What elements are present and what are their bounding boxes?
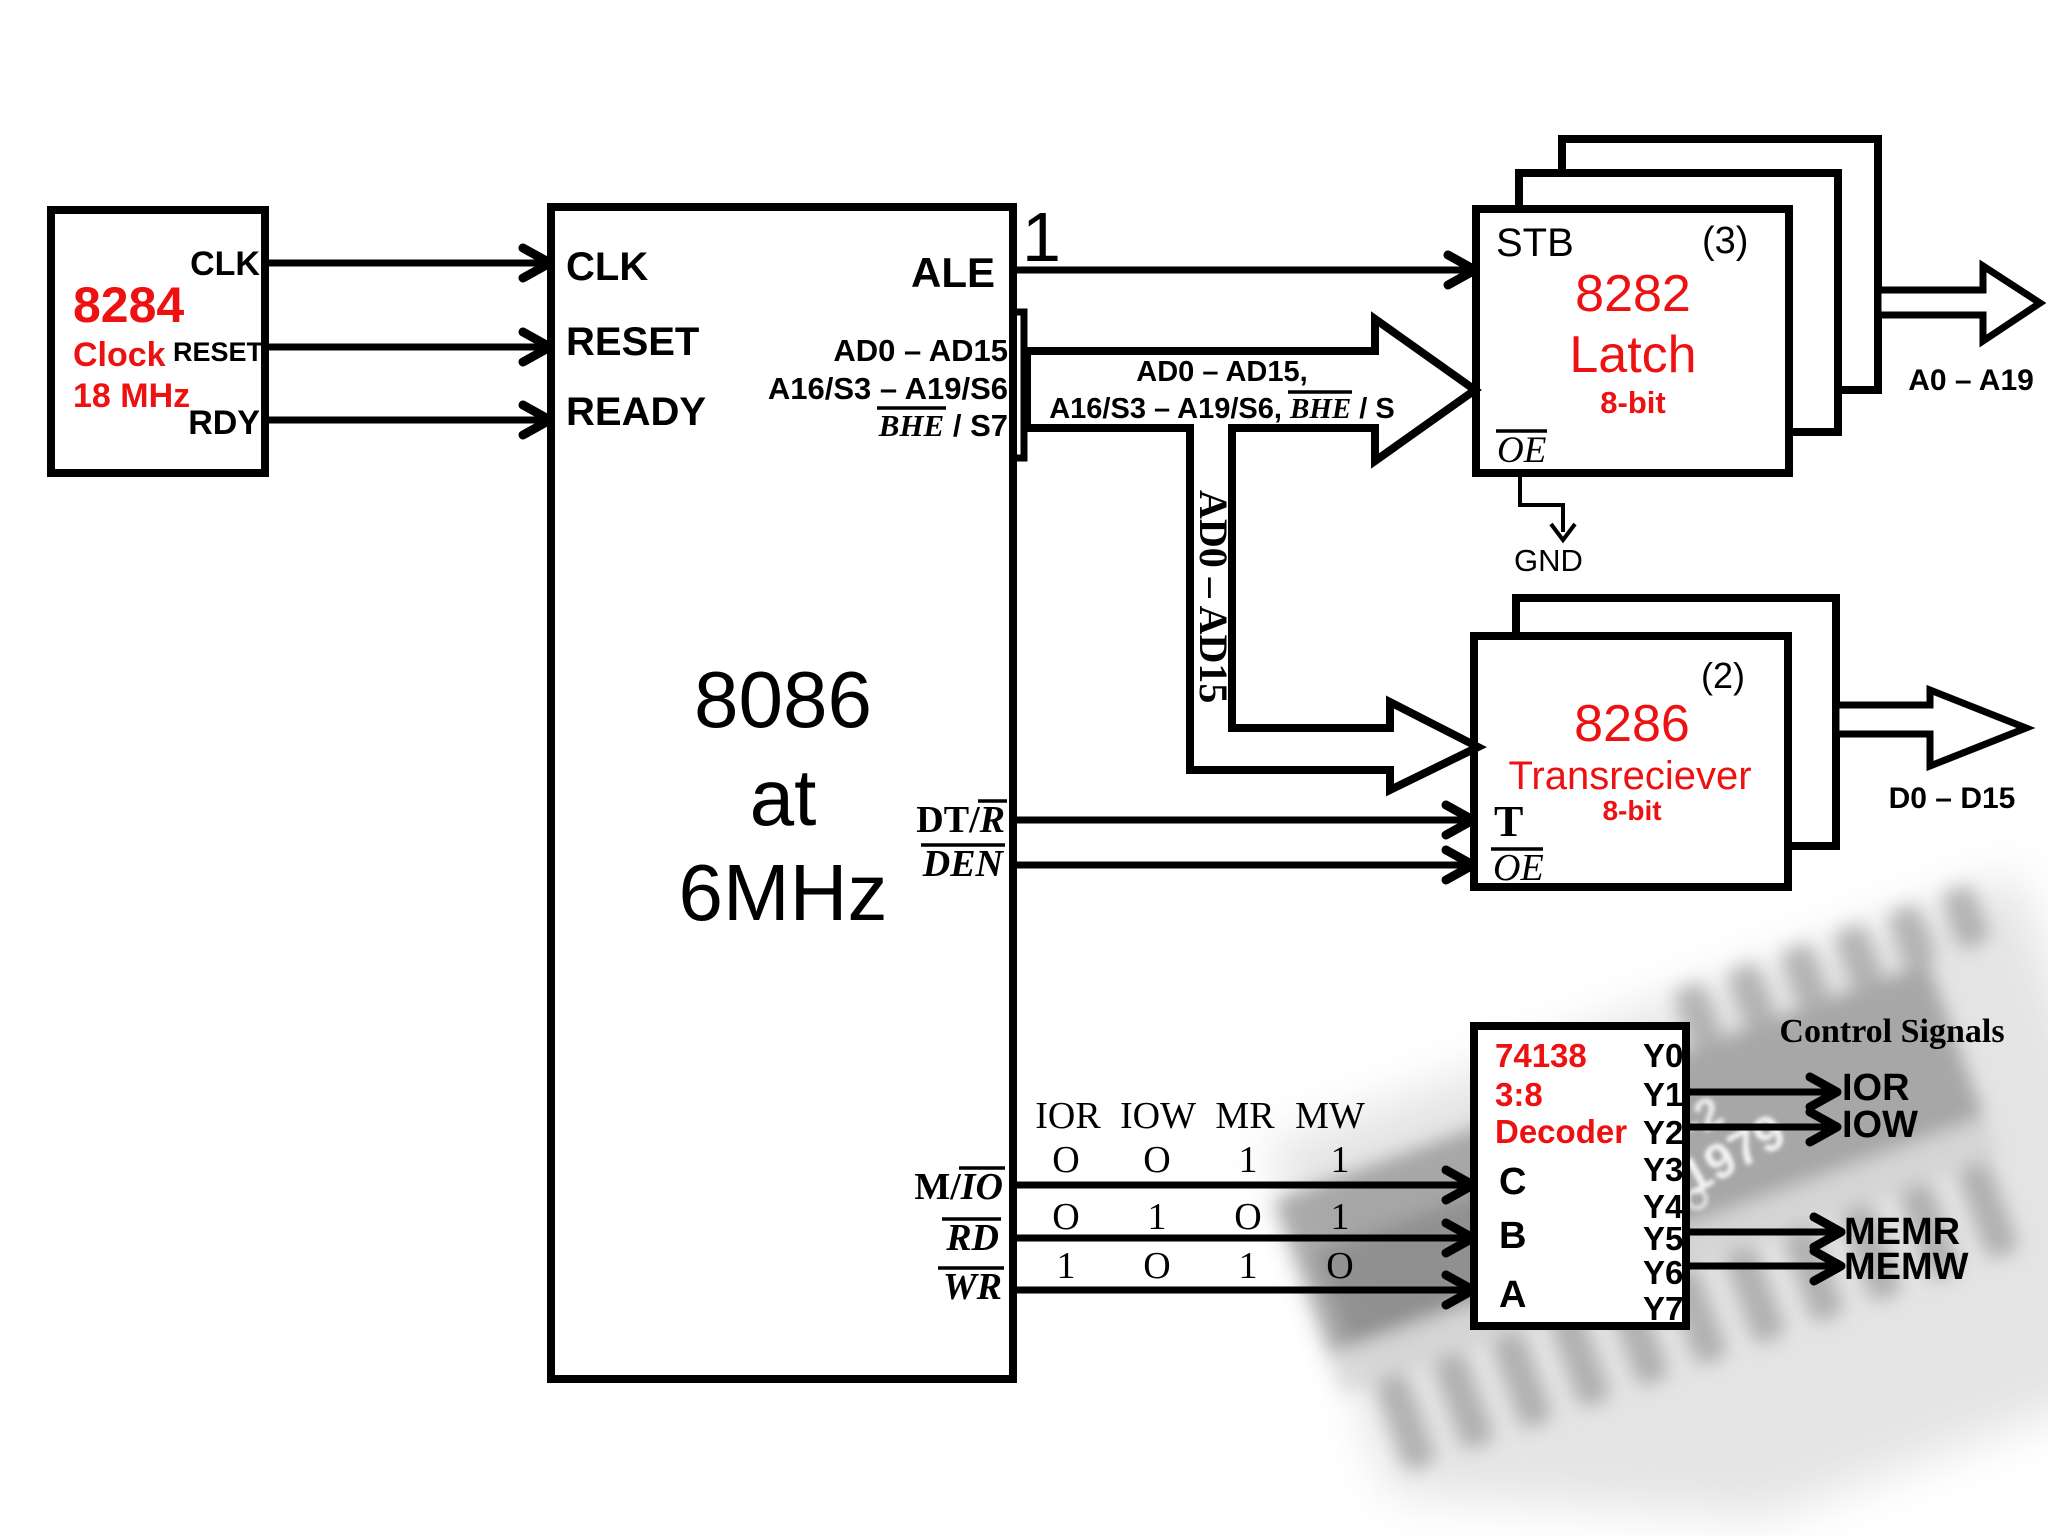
svg-text:1: 1 (1239, 1245, 1258, 1287)
svg-text:Y6: Y6 (1643, 1254, 1683, 1291)
svg-text:M/IO: M/IO (914, 1166, 1003, 1208)
svg-text:8284: 8284 (73, 277, 184, 333)
svg-text:O: O (1143, 1245, 1170, 1287)
svg-text:8286: 8286 (1574, 695, 1690, 753)
svg-text:MR: MR (1215, 1095, 1275, 1137)
svg-text:OE: OE (1497, 430, 1546, 471)
svg-text:(2): (2) (1701, 655, 1745, 696)
svg-text:CLK: CLK (190, 245, 260, 283)
svg-text:A0 – A19: A0 – A19 (1908, 364, 2034, 397)
svg-text:MEMW: MEMW (1844, 1246, 1969, 1288)
svg-text:ALE: ALE (911, 249, 995, 296)
svg-text:IOR: IOR (1842, 1067, 1910, 1109)
svg-text:BHE / S7: BHE / S7 (878, 408, 1008, 443)
svg-text:Y7: Y7 (1643, 1290, 1683, 1327)
svg-text:8-bit: 8-bit (1602, 795, 1661, 826)
svg-text:D0 – D15: D0 – D15 (1889, 782, 2016, 815)
svg-text:O: O (1052, 1196, 1079, 1238)
svg-text:Y1: Y1 (1643, 1076, 1683, 1113)
svg-text:RESET: RESET (566, 320, 699, 364)
svg-text:Y5: Y5 (1643, 1220, 1683, 1257)
svg-text:8086: 8086 (694, 655, 872, 744)
svg-text:Latch: Latch (1569, 326, 1696, 384)
svg-text:74138: 74138 (1495, 1037, 1587, 1074)
svg-text:(3): (3) (1702, 220, 1748, 262)
svg-text:1: 1 (1331, 1139, 1350, 1181)
svg-text:18 MHz: 18 MHz (73, 377, 190, 415)
svg-text:READY: READY (566, 390, 706, 434)
svg-text:AD0 – AD15: AD0 – AD15 (1191, 490, 1236, 703)
svg-text:6MHz: 6MHz (679, 848, 888, 937)
svg-text:8282: 8282 (1575, 265, 1691, 323)
svg-text:OE: OE (1493, 847, 1544, 889)
svg-text:CLK: CLK (566, 245, 648, 289)
svg-text:O: O (1234, 1196, 1261, 1238)
svg-text:RD: RD (945, 1217, 999, 1259)
svg-text:RDY: RDY (188, 404, 260, 442)
svg-text:1: 1 (1239, 1139, 1258, 1181)
svg-text:IOW: IOW (1120, 1095, 1196, 1137)
svg-text:3:8: 3:8 (1495, 1076, 1543, 1113)
svg-text:Decoder: Decoder (1495, 1113, 1627, 1150)
svg-text:A: A (1499, 1274, 1526, 1316)
svg-text:O: O (1326, 1245, 1353, 1287)
svg-text:1: 1 (1022, 198, 1061, 276)
svg-text:at: at (750, 753, 817, 842)
svg-text:STB: STB (1496, 221, 1574, 265)
svg-text:T: T (1494, 797, 1523, 846)
svg-text:1: 1 (1148, 1196, 1167, 1238)
svg-text:O: O (1143, 1139, 1170, 1181)
svg-text:MW: MW (1295, 1095, 1365, 1137)
svg-text:8-bit: 8-bit (1600, 385, 1665, 420)
svg-text:C: C (1499, 1161, 1526, 1203)
svg-text:B: B (1499, 1215, 1526, 1257)
svg-text:GND: GND (1514, 543, 1583, 578)
svg-text:Transreciever: Transreciever (1508, 754, 1751, 798)
svg-text:RESET: RESET (173, 337, 264, 367)
svg-text:WR: WR (943, 1266, 1002, 1308)
svg-text:1: 1 (1331, 1196, 1350, 1238)
svg-text:IOW: IOW (1842, 1104, 1918, 1146)
svg-text:1: 1 (1057, 1245, 1076, 1287)
svg-text:DEN: DEN (922, 843, 1005, 885)
svg-text:Control Signals: Control Signals (1779, 1013, 2004, 1050)
svg-text:IOR: IOR (1035, 1095, 1101, 1137)
svg-text:A16/S3 – A19/S6: A16/S3 – A19/S6 (768, 371, 1008, 406)
svg-text:Clock: Clock (73, 336, 166, 374)
svg-text:AD0 – AD15,: AD0 – AD15, (1136, 356, 1307, 388)
svg-text:DT/R: DT/R (916, 799, 1005, 841)
svg-text:Y3: Y3 (1643, 1151, 1683, 1188)
svg-text:Y0: Y0 (1643, 1037, 1683, 1074)
svg-text:AD0 – AD15: AD0 – AD15 (833, 333, 1008, 368)
svg-text:O: O (1052, 1139, 1079, 1181)
svg-text:A16/S3 – A19/S6, BHE / S: A16/S3 – A19/S6, BHE / S (1049, 393, 1395, 425)
svg-text:Y2: Y2 (1643, 1114, 1683, 1151)
